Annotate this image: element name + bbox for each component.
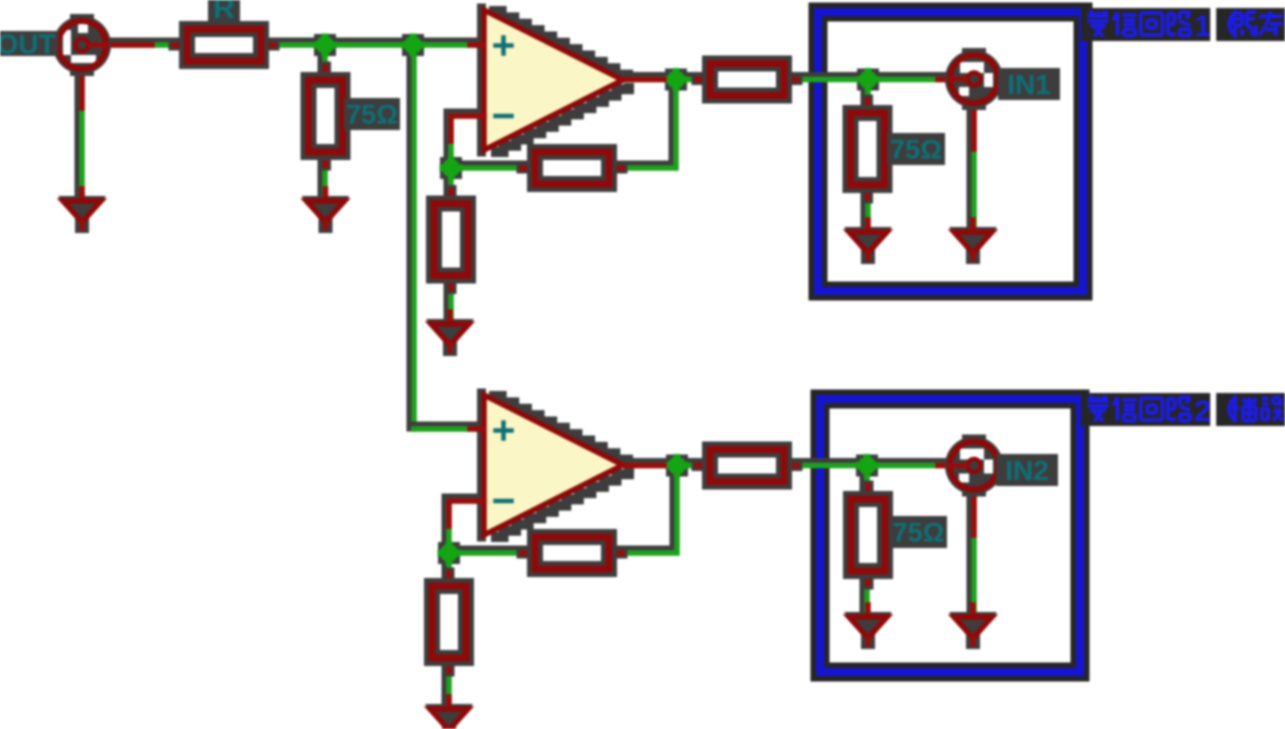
wire IN2 to ground [972, 488, 975, 617]
wire node A to R75a [323, 43, 326, 81]
connector IN2 [945, 435, 1003, 497]
node D junction [665, 68, 688, 91]
wire into U2 + input [412, 427, 485, 430]
node F junction [438, 542, 461, 565]
resistor R series input [174, 29, 274, 61]
ground in box1 under 75 ohm [844, 220, 892, 264]
label 受信回路1（既存） title 1 [1081, 8, 1285, 43]
node H junction [856, 454, 879, 477]
pin U1 + input [470, 42, 483, 48]
wire R75c to ground [865, 568, 868, 617]
wire node F to Rg2 [447, 551, 450, 586]
node G junction [666, 454, 689, 477]
pin OUT connector [89, 42, 152, 48]
pin IN2 left [938, 463, 966, 469]
pin OUT down [79, 70, 85, 108]
node A junction [314, 34, 337, 57]
pin U1 output [623, 77, 664, 83]
svg-text:2: 2 [1194, 395, 1211, 428]
resistor 75 ohm in box 1 [851, 100, 885, 198]
wire IN1 to ground [972, 102, 975, 232]
wire U1 inverting input [449, 114, 485, 169]
label 受信回路2（増設） title 2 [1081, 393, 1285, 428]
svg-text:IN2: IN2 [1005, 455, 1049, 486]
box receiver circuit 2 (added) [820, 399, 1080, 672]
wire node H to R75c [865, 463, 868, 500]
wire node F to Rf2 [447, 551, 534, 554]
wire R75b to ground [866, 181, 869, 232]
wire node C to Rg1 [449, 166, 452, 205]
ground under Rg1 [426, 312, 474, 356]
wire Rf2 to U2 output node [609, 463, 678, 553]
node E junction [857, 68, 880, 91]
svg-text:75Ω: 75Ω [890, 135, 942, 165]
resistor Rs2 series output [697, 450, 797, 482]
pin U2 - input [449, 501, 484, 526]
wire U1 output to Rs1 [621, 77, 711, 80]
pin IN2 down [971, 490, 977, 535]
svg-text:OUT: OUT [0, 29, 56, 60]
wire OUT to R [98, 43, 188, 46]
svg-text:75Ω: 75Ω [893, 518, 945, 548]
label 75 ohm node A [344, 98, 400, 130]
wire Rs1 to BNC IN1 [782, 77, 950, 80]
wire node B down to U2 [412, 43, 415, 430]
op-amp U1 [482, 8, 630, 152]
wire Rg1 to ground [449, 273, 452, 324]
pin U2 output [623, 463, 664, 469]
pin IN1 left [938, 77, 966, 83]
label R [208, 0, 240, 25]
pin U1 - input [451, 116, 484, 141]
svg-text:75Ω: 75Ω [346, 100, 398, 130]
resistor Rs1 series output [697, 64, 797, 96]
ground under OUT [58, 189, 106, 233]
pin IN1 down [971, 104, 977, 149]
wire node E to R75b [866, 77, 869, 115]
wire Rf1 to U1 output node [609, 77, 677, 168]
pin U2 + input [470, 426, 483, 432]
node B junction [402, 34, 425, 57]
label 75 ohm box2 [890, 516, 947, 548]
label IN2 [996, 454, 1058, 486]
wire OUT to ground [80, 68, 83, 201]
label IN1 [998, 68, 1060, 100]
connector IN1 [945, 48, 1003, 110]
ground in box2 under 75 ohm [844, 605, 892, 649]
ground under 75 ohm node A [302, 189, 350, 233]
node C junction [440, 157, 463, 180]
wire Rg2 to ground [447, 657, 450, 709]
wire U2 output to Rs2 [621, 463, 711, 466]
resistor Rg2 feedback ground [432, 573, 466, 671]
ground in box1 under IN1 [949, 220, 997, 264]
resistor 75 ohm in box 2 [851, 486, 885, 584]
resistor Rf2 feedback [522, 537, 622, 569]
wire Rs2 to BNC IN2 [782, 463, 950, 466]
wire R75a to ground [323, 150, 326, 201]
ground in box2 under IN2 [949, 605, 997, 649]
op-amp U2 [482, 393, 630, 537]
label OUT [0, 29, 58, 60]
wire U2 inverting input [447, 499, 485, 554]
box receiver circuit 1 (existing) [818, 12, 1083, 291]
resistor Rf1 feedback [522, 152, 622, 184]
wire node C to Rf1 [449, 166, 534, 169]
svg-text:R: R [213, 0, 235, 25]
connector OUT [53, 14, 111, 76]
wire R to opamp U1 + input [259, 43, 485, 46]
svg-text:1: 1 [1194, 10, 1211, 43]
svg-text:IN1: IN1 [1007, 69, 1051, 100]
resistor 75 ohm at node A [309, 67, 343, 165]
label 75 ohm box1 [887, 133, 945, 165]
resistor Rg1 feedback ground [434, 191, 468, 289]
ground under Rg2 [425, 697, 473, 729]
